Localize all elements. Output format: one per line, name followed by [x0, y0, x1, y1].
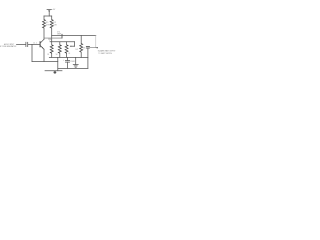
svg-text:MMF: MMF: [57, 34, 61, 36]
svg-text:C1 .1: C1 .1: [33, 42, 37, 44]
svg-text:TO SHIFT SWITCH: TO SHIFT SWITCH: [98, 53, 112, 55]
